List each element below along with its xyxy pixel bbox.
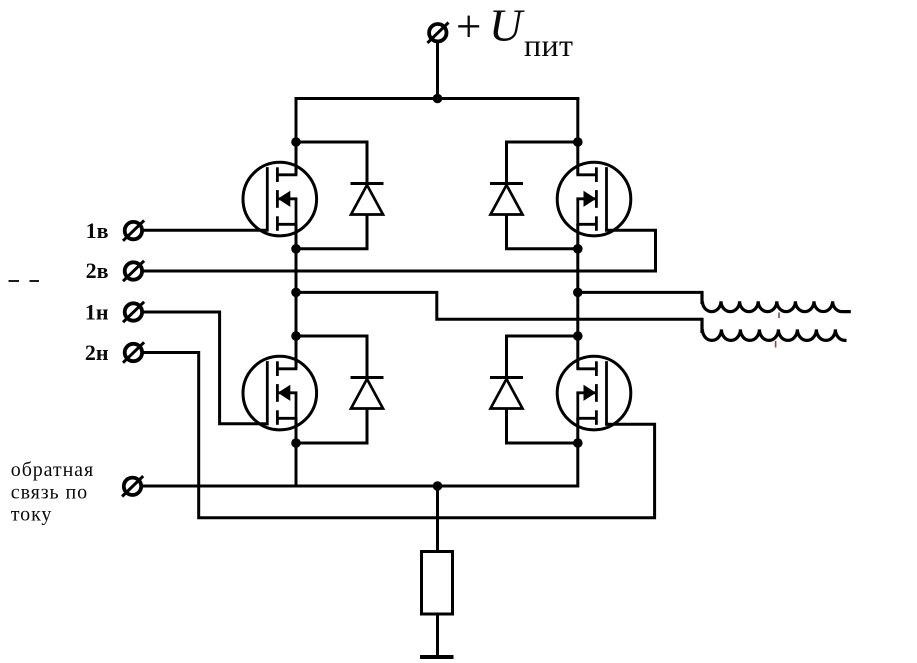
junction node B (right half-bridge output) <box>573 288 583 298</box>
transistor VT4 (bottom-right) <box>557 356 631 430</box>
red tick mark 2 <box>775 341 777 348</box>
junction VT1 source / VD1 anode <box>291 244 301 254</box>
svg-text:1н: 1н <box>85 299 109 324</box>
junction VT4 drain / VD4 cathode <box>573 331 583 341</box>
terminal 1н <box>123 302 144 322</box>
wire VT2 drain <box>576 97 579 175</box>
wire VT2 source to VT4 drain <box>576 224 579 369</box>
wire VT1 drain <box>295 97 298 175</box>
junction VT3 drain / VD3 cathode <box>291 331 301 341</box>
winding W2 <box>702 318 847 341</box>
terminal 2в <box>123 261 144 281</box>
wire R1 to ground <box>436 614 439 657</box>
junction VT3 source / VD3 anode <box>291 438 301 448</box>
wire bottom rail (current sense) <box>142 485 578 488</box>
svg-text:2в: 2в <box>86 258 109 283</box>
wire VD1 loop top <box>296 142 367 184</box>
wire VD1 loop bottom <box>296 214 367 249</box>
diode VD3 <box>351 378 384 409</box>
diode VD4 <box>490 378 523 409</box>
junction VT1 drain / VD1 cathode <box>291 137 301 147</box>
transistor VT2 (top-right) <box>557 162 631 236</box>
junction top rail center <box>433 94 443 104</box>
wire top rail <box>295 97 580 100</box>
svg-text:току: току <box>11 504 53 526</box>
svg-text:2н: 2н <box>85 340 109 365</box>
wire VD2 loop top <box>507 142 578 184</box>
svg-text:U: U <box>489 0 525 50</box>
terminal 1в <box>123 220 144 240</box>
wire VD2 loop bottom <box>507 214 578 249</box>
transistor VT1 (top-left) <box>243 162 317 236</box>
wire VT3 source to bottom rail <box>295 418 298 488</box>
wire supply to top rail <box>436 42 439 100</box>
wire VT1 source to VT3 drain <box>295 224 298 369</box>
wire VT4 source to bottom rail <box>576 418 579 488</box>
wire node B to winding W1 <box>578 291 702 294</box>
wire VD3 loop bottom <box>296 408 367 444</box>
wire to resistor R1 <box>436 486 439 552</box>
diode VD1 <box>351 184 384 215</box>
junction VT2 source / VD2 anode <box>573 244 583 254</box>
junction node A (left half-bridge output) <box>291 288 301 298</box>
terminal +Uпит <box>427 23 448 43</box>
junction VT2 drain / VD2 cathode <box>573 137 583 147</box>
wire 2н to VT4 gate <box>142 353 655 518</box>
wire VD4 loop top <box>507 336 578 378</box>
terminal 2н <box>123 342 144 362</box>
junction VT4 source / VD4 anode <box>573 438 583 448</box>
wire VD3 loop top <box>296 336 367 378</box>
diode VD2 <box>490 184 523 215</box>
label обратная связь по току <box>11 459 94 526</box>
svg-text:пит: пит <box>524 27 573 63</box>
red tick mark 1 <box>778 313 780 319</box>
terminal обратная связь по току <box>122 476 143 496</box>
stray dash marks <box>9 280 40 282</box>
wire VD4 loop bottom <box>507 408 578 444</box>
wire node A to winding W2 <box>296 292 702 319</box>
wire 2в to VT2 gate <box>142 230 656 271</box>
transistor VT3 (bottom-left) <box>243 356 317 430</box>
svg-text:обратная: обратная <box>11 459 94 481</box>
label +Uпит <box>458 0 573 63</box>
winding W1 <box>702 291 851 312</box>
svg-text:связь по: связь по <box>11 481 88 503</box>
svg-text:1в: 1в <box>86 218 109 243</box>
wire 1н to VT3 gate <box>142 312 269 424</box>
resistor R1 <box>422 552 453 615</box>
wire 1в to VT1 gate <box>142 229 269 232</box>
ground <box>420 655 454 659</box>
junction sense resistor tap <box>433 481 443 491</box>
